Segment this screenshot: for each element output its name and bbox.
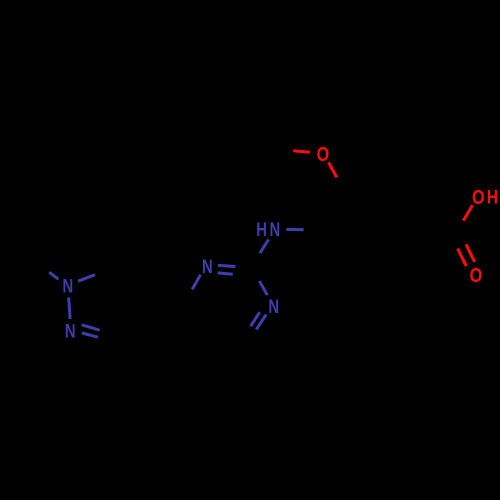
wire: bond N3=C4 main half (pyrimidine) [256, 315, 266, 330]
wire: bond N1=C2 main half (pyrimidine) [218, 265, 235, 266]
svg-text:H: H [487, 186, 498, 208]
svg-text:N: N [202, 256, 213, 277]
wire: bond C=O line left half (carboxylic acid) [458, 249, 467, 267]
wire: bond N1-CH3 half (pyrazole N-methyl) [49, 272, 58, 279]
wire: bond N1-N2 (pyrazole) [69, 297, 70, 319]
wire: bond N2=C3 inner half (pyrazole) [82, 325, 100, 330]
wire: bond N3=C4 inner half (pyrimidine) [251, 312, 260, 326]
wire: bond C2-N3 half (pyrimidine) [259, 281, 267, 295]
svg-text:N: N [63, 276, 74, 297]
svg-text:H: H [256, 219, 267, 240]
wire: bond NH-C4' half (amine to benzene) [286, 228, 303, 231]
svg-text:O: O [472, 185, 485, 208]
wire: bond NH-C2 half (amine to pyrimidine) [260, 239, 269, 253]
svg-text:O: O [317, 142, 330, 165]
svg-text:N: N [269, 219, 280, 240]
svg-text:O: O [470, 263, 483, 286]
wire: bond C-OH half (carboxylic acid) [463, 205, 472, 220]
svg-text:N: N [65, 321, 76, 342]
wire: bond O-C3' half (methoxy to benzene) [329, 162, 337, 177]
svg-text:N: N [268, 296, 279, 317]
wire: bond N1-C5 half (pyrazole) [78, 275, 95, 282]
wire: bond O-CH3 half (methoxy) [293, 151, 310, 152]
wire: bond N1=C2 inner half (pyrimidine) [218, 273, 233, 274]
wire: bond N1-C6 half (pyrimidine) [192, 275, 200, 290]
wire: bond N2=C3 main half (pyrazole) [82, 333, 98, 337]
wire: bond C=O line right half (carboxylic acid) [466, 244, 475, 262]
